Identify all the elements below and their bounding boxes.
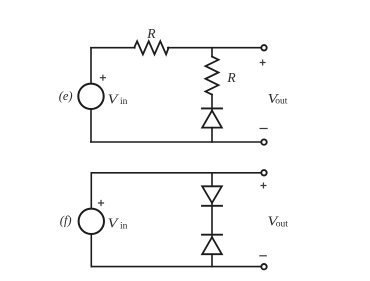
svg-text:R: R [226, 70, 236, 85]
wire top rail left segment (e) [91, 47, 135, 49]
svg-text:(f): (f) [60, 213, 72, 227]
svg-text:R: R [146, 26, 156, 41]
svg-text:in: in [120, 222, 128, 232]
+ polarity mark of source (f) [99, 201, 104, 206]
+ output polarity (e) [260, 60, 265, 65]
wire resistor to diode (e) [211, 95, 213, 111]
diode D1 triangle (e) [202, 111, 222, 128]
output terminal - (f) [261, 264, 266, 269]
diode D2 cathode bar (f) [202, 205, 222, 207]
wire bottom rail (f) [91, 266, 260, 268]
wire between diodes (f) [211, 203, 213, 237]
diode D2 triangle (f) [202, 186, 222, 203]
- output polarity (f) [260, 255, 266, 257]
svg-text:out: out [275, 97, 288, 107]
svg-text:in: in [120, 97, 128, 107]
wire top rail right segment (e) [168, 47, 261, 49]
voltage source Vin (e) [78, 84, 103, 109]
wire source bottom to rail (e) [90, 109, 92, 142]
wire diode to bottom rail (e) [211, 128, 213, 142]
resistor R shunt (e) [206, 57, 219, 95]
svg-text:V: V [108, 217, 120, 232]
voltage source Vin (f) [79, 209, 104, 234]
wire junction down to shunt resistor (e) [211, 48, 213, 57]
output terminal - (e) [261, 139, 266, 144]
diode D1 cathode bar (e) [202, 107, 222, 109]
svg-text:(e): (e) [59, 89, 73, 103]
wire source bottom to rail (f) [90, 234, 92, 267]
wire diode D3 to bottom rail (f) [211, 254, 213, 266]
diode D3 cathode bar (f) [202, 234, 222, 236]
wire top rail (f) [91, 172, 260, 174]
output terminal + (f) [261, 170, 266, 175]
+ polarity mark of source (e) [100, 75, 105, 80]
svg-text:out: out [276, 219, 289, 229]
svg-text:V: V [108, 92, 120, 107]
output terminal + (e) [261, 45, 266, 50]
- output polarity (e) [260, 128, 267, 130]
wire source top to rail (e) [90, 48, 92, 84]
wire junction down to diode D2 (f) [211, 173, 213, 187]
+ output polarity (f) [261, 183, 266, 188]
wire source top to rail (f) [90, 173, 92, 209]
wire bottom rail (e) [91, 141, 261, 143]
diode D3 triangle (f) [202, 237, 222, 254]
resistor R series (e) [134, 41, 168, 54]
